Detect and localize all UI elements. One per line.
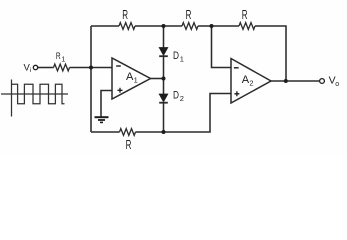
wire diode branch above D1 — [163, 26, 165, 48]
wire A2 inverting input from top rail — [212, 26, 232, 68]
op-amp A2 — [231, 59, 271, 104]
svg-text:1: 1 — [134, 75, 138, 84]
node junction top rail at A2 inverting branch — [210, 24, 214, 28]
wire top rail right corner down to A2 output — [255, 26, 286, 81]
svg-text:2: 2 — [180, 94, 184, 103]
resistor R (top middle) — [182, 23, 198, 30]
node junction A2 output / feedback — [284, 79, 288, 83]
node junction bottom rail at D2 branch — [162, 130, 166, 134]
svg-text:1: 1 — [180, 54, 184, 63]
square wave axis horizontal — [1, 93, 68, 95]
label Vo — [329, 75, 340, 88]
op-amp A2 plus sign — [234, 91, 239, 96]
op-amp A2 label — [242, 74, 254, 87]
wire diode branch below D2 to bottom rail — [163, 103, 165, 132]
svg-text:2: 2 — [249, 78, 253, 87]
wire top rail segment 2 — [135, 25, 182, 27]
square wave axis vertical — [11, 80, 13, 117]
svg-text:o: o — [335, 81, 339, 88]
wire A2 output to Vo — [271, 80, 319, 82]
diode D1 label — [173, 50, 184, 63]
diode D1 — [159, 48, 168, 57]
op-amp A2 minus sign — [234, 67, 239, 69]
wire bottom rail to A2 non-inverting input — [136, 94, 232, 133]
label R1 (input resistor) — [56, 51, 66, 63]
square wave trace — [12, 84, 65, 104]
svg-text:D: D — [173, 50, 179, 62]
wire A1 non-inverting input to ground — [101, 91, 112, 118]
svg-text:R: R — [56, 51, 61, 62]
resistor R (top right, A2 feedback) — [239, 23, 255, 30]
svg-text:R: R — [126, 138, 132, 152]
wire left vertical (node between R1 and A1 inverting input) — [90, 26, 92, 132]
wire diode branch D1 to D2 through A1 output node — [163, 56, 165, 94]
svg-text:i: i — [30, 67, 31, 74]
op-amp A1 label — [126, 71, 138, 84]
wire input Vi to R1 — [38, 67, 54, 69]
node junction top rail at D1 branch — [162, 24, 166, 28]
svg-text:1: 1 — [61, 56, 65, 63]
svg-text:R: R — [186, 8, 192, 22]
ground — [95, 117, 109, 122]
wire R1 to A1 inverting input — [70, 67, 113, 69]
wire A1 output — [151, 78, 164, 80]
node junction at input (R1 / A1- / left rail) — [89, 66, 93, 70]
node junction A1 output — [162, 77, 166, 81]
op-amp A1 plus sign — [118, 88, 123, 93]
wire bottom rail left segment — [91, 131, 120, 133]
wire top rail segment 3 — [198, 25, 239, 27]
svg-text:R: R — [122, 8, 128, 22]
terminal Vo — [320, 79, 325, 84]
svg-text:D: D — [173, 90, 179, 102]
resistor R (bottom) — [120, 129, 136, 136]
input square-wave source symbol — [1, 80, 68, 117]
op-amp A1 minus sign — [116, 65, 121, 67]
resistor R1 (input) — [54, 64, 70, 71]
resistor R (top left) — [119, 23, 135, 30]
terminal Vi — [33, 65, 37, 69]
wire top rail left segment — [91, 25, 119, 27]
op-amp A1 — [112, 58, 151, 99]
svg-text:R: R — [242, 8, 248, 22]
diode D2 label — [173, 90, 184, 103]
diode D2 — [159, 94, 168, 103]
label Vi — [24, 62, 32, 74]
